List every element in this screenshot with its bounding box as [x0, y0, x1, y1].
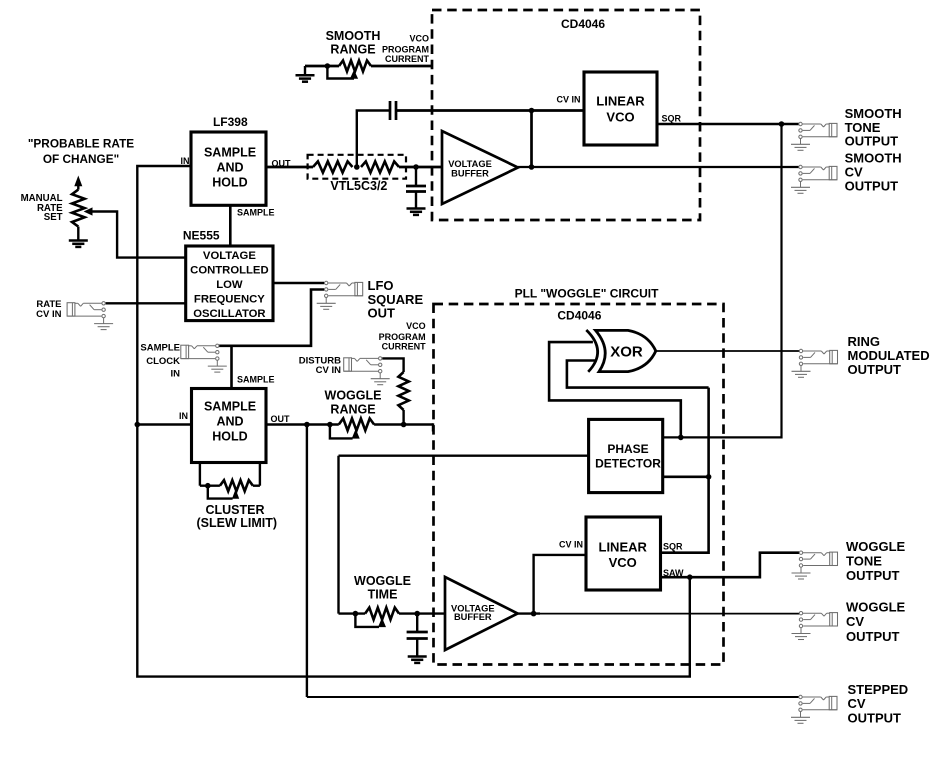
svg-text:PLL "WOGGLE" CIRCUIT: PLL "WOGGLE" CIRCUIT	[515, 287, 659, 301]
svg-text:RANGE: RANGE	[330, 403, 375, 417]
svg-text:SQR: SQR	[662, 113, 682, 123]
svg-text:MODULATED: MODULATED	[848, 348, 930, 363]
svg-text:IN: IN	[179, 411, 188, 421]
svg-text:XOR: XOR	[610, 344, 643, 361]
svg-text:TONE: TONE	[845, 120, 881, 135]
svg-text:FREQUENCY: FREQUENCY	[194, 294, 265, 306]
svg-text:VCO: VCO	[606, 110, 634, 125]
svg-text:SAMPLE: SAMPLE	[237, 208, 275, 218]
svg-text:CV: CV	[846, 614, 864, 629]
svg-text:OUTPUT: OUTPUT	[846, 629, 900, 644]
svg-text:PROGRAM: PROGRAM	[379, 332, 426, 342]
svg-text:SMOOTH: SMOOTH	[326, 29, 381, 43]
svg-text:IN: IN	[171, 369, 181, 380]
svg-text:IN: IN	[181, 156, 190, 166]
svg-text:LF398: LF398	[213, 115, 248, 129]
svg-text:TIME: TIME	[368, 588, 398, 602]
svg-text:BUFFER: BUFFER	[451, 169, 489, 179]
svg-text:WOGGLE: WOGGLE	[354, 574, 411, 588]
svg-text:CURRENT: CURRENT	[382, 342, 427, 352]
svg-text:CV: CV	[845, 165, 863, 180]
svg-text:OUTPUT: OUTPUT	[845, 134, 899, 149]
svg-text:VCO: VCO	[409, 34, 429, 44]
svg-text:WOGGLE: WOGGLE	[846, 600, 906, 615]
svg-text:CV IN: CV IN	[559, 540, 583, 550]
svg-text:OUT: OUT	[271, 414, 291, 424]
svg-text:SMOOTH: SMOOTH	[845, 106, 902, 121]
svg-text:OUT: OUT	[272, 159, 292, 169]
svg-text:BUFFER: BUFFER	[454, 612, 492, 622]
svg-text:AND: AND	[216, 415, 243, 429]
svg-text:OUTPUT: OUTPUT	[846, 568, 900, 583]
svg-text:OUT: OUT	[368, 306, 396, 321]
svg-text:VTL5C3/2: VTL5C3/2	[330, 179, 387, 193]
svg-text:CD4046: CD4046	[561, 17, 605, 31]
svg-text:HOLD: HOLD	[212, 430, 247, 444]
svg-text:TONE: TONE	[846, 554, 882, 569]
svg-text:CURRENT: CURRENT	[385, 54, 430, 64]
svg-text:RING: RING	[848, 334, 881, 349]
svg-text:PROGRAM: PROGRAM	[382, 45, 429, 55]
svg-text:CLOCK: CLOCK	[146, 356, 180, 367]
svg-text:LFO: LFO	[368, 278, 394, 293]
svg-text:CV IN: CV IN	[556, 94, 580, 104]
svg-text:CD4046: CD4046	[557, 309, 601, 323]
svg-text:LINEAR: LINEAR	[596, 94, 645, 109]
svg-text:SAMPLE: SAMPLE	[140, 343, 180, 354]
svg-text:CLUSTER: CLUSTER	[205, 503, 264, 517]
svg-text:LOW: LOW	[216, 279, 243, 291]
svg-text:CONTROLLED: CONTROLLED	[190, 265, 268, 277]
svg-text:OUTPUT: OUTPUT	[848, 362, 902, 377]
svg-text:LINEAR: LINEAR	[599, 540, 648, 555]
svg-text:"PROBABLE RATE: "PROBABLE RATE	[28, 137, 134, 151]
svg-text:DETECTOR: DETECTOR	[595, 457, 661, 471]
svg-text:STEPPED: STEPPED	[848, 682, 909, 697]
svg-text:WOGGLE: WOGGLE	[325, 389, 382, 403]
svg-text:PHASE: PHASE	[607, 442, 648, 456]
svg-text:SET: SET	[44, 212, 63, 223]
svg-text:OSCILLATOR: OSCILLATOR	[193, 308, 265, 320]
svg-text:OUTPUT: OUTPUT	[848, 710, 902, 725]
svg-text:SAMPLE: SAMPLE	[237, 375, 275, 385]
svg-text:HOLD: HOLD	[212, 176, 247, 190]
svg-text:NE555: NE555	[183, 228, 220, 242]
svg-text:(SLEW LIMIT): (SLEW LIMIT)	[197, 516, 278, 530]
svg-text:AND: AND	[216, 161, 243, 175]
svg-text:SAMPLE: SAMPLE	[204, 400, 256, 414]
svg-text:OF CHANGE": OF CHANGE"	[43, 152, 119, 166]
svg-text:SAW: SAW	[663, 568, 684, 578]
svg-text:VOLTAGE: VOLTAGE	[203, 250, 256, 262]
svg-text:VCO: VCO	[406, 321, 426, 331]
svg-text:WOGGLE: WOGGLE	[846, 539, 906, 554]
svg-text:SMOOTH: SMOOTH	[845, 151, 902, 166]
svg-text:RANGE: RANGE	[330, 43, 375, 57]
svg-text:CV IN: CV IN	[316, 365, 341, 376]
svg-text:VCO: VCO	[609, 555, 637, 570]
svg-text:SQR: SQR	[663, 541, 683, 551]
svg-text:SAMPLE: SAMPLE	[204, 146, 256, 160]
svg-text:OUTPUT: OUTPUT	[845, 179, 899, 194]
svg-text:CV: CV	[848, 696, 866, 711]
svg-text:CV IN: CV IN	[36, 309, 61, 320]
